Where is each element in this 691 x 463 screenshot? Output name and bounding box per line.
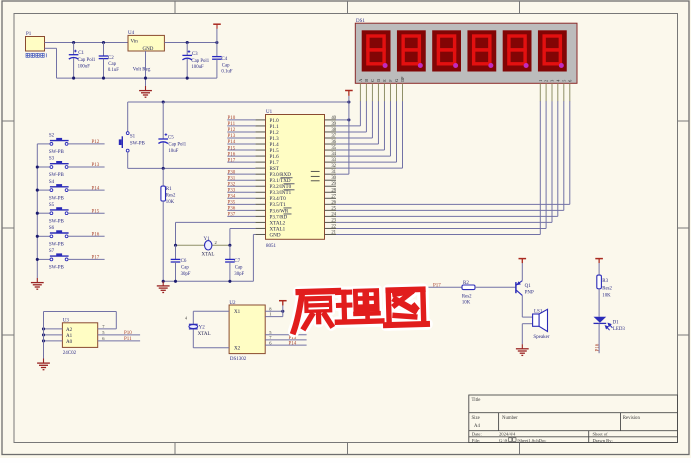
- wire pin25 to display digit: [336, 209, 564, 211]
- svg-text:P14: P14: [92, 186, 100, 191]
- display digit 4: [467, 30, 496, 71]
- svg-text:Cap: Cap: [108, 62, 116, 67]
- U2 wire net P13: [265, 339, 306, 341]
- capacitor C3: [186, 41, 189, 44]
- U1 right pin 27: [325, 197, 337, 199]
- svg-text:SW-PB: SW-PB: [49, 219, 65, 224]
- VCC power bar U2: [279, 300, 287, 302]
- svg-text:S2: S2: [49, 134, 55, 139]
- wire net P31: [227, 179, 255, 181]
- svg-text:30: 30: [331, 176, 336, 181]
- svg-text:2024/4/4: 2024/4/4: [499, 432, 516, 437]
- svg-text:P15: P15: [228, 146, 236, 151]
- svg-text:Cap Pol1: Cap Pol1: [191, 59, 209, 64]
- svg-text:Sheet of: Sheet of: [593, 432, 609, 437]
- wire Q1 collector: [521, 295, 523, 317]
- svg-text:1: 1: [269, 312, 271, 317]
- U1 right pin 30: [325, 179, 337, 181]
- gnd bottom rail: [57, 77, 217, 79]
- svg-text:Cap: Cap: [235, 266, 243, 271]
- svg-text:P31: P31: [228, 176, 236, 181]
- wire pin26 to display digit: [336, 203, 570, 205]
- svg-text:S3: S3: [49, 157, 55, 162]
- wire pin38 to display segment: [336, 131, 366, 133]
- U1 right pin 37: [325, 137, 337, 139]
- svg-text:0.1uF: 0.1uF: [221, 69, 232, 74]
- svg-text:U4: U4: [128, 31, 135, 36]
- svg-text:GND: GND: [270, 232, 281, 238]
- overline INT0: [284, 183, 295, 185]
- svg-text:1: 1: [538, 80, 543, 82]
- svg-text:4: 4: [185, 315, 187, 320]
- wire pin31 EA: [336, 173, 349, 175]
- U2 pin1 wire: [265, 316, 283, 318]
- svg-text:Res2: Res2: [166, 194, 176, 199]
- U1 right pin 24: [325, 215, 337, 217]
- ground under speaker: [521, 344, 523, 349]
- wire pin23 to display digit: [336, 221, 552, 223]
- svg-text:31: 31: [331, 170, 336, 175]
- svg-text:File:: File:: [472, 438, 480, 443]
- svg-text:40: 40: [331, 116, 336, 121]
- wire U1 GND: [253, 233, 255, 235]
- wire pin22 to display digit: [336, 227, 546, 229]
- svg-text:Revision: Revision: [623, 416, 641, 421]
- mystery dashes: [311, 170, 320, 172]
- svg-text:33: 33: [331, 158, 336, 163]
- ground under xtal rail: [162, 281, 164, 286]
- svg-text:Drawn By:: Drawn By:: [593, 438, 613, 443]
- svg-text:27: 27: [331, 194, 336, 199]
- U1 right pin 34: [325, 155, 337, 157]
- wire S2 to net P12: [68, 143, 105, 145]
- VCC power bar top: [216, 29, 218, 43]
- svg-text:Cap: Cap: [222, 63, 230, 68]
- wire S6 to net P16: [68, 235, 105, 237]
- svg-text:DP: DP: [400, 76, 405, 82]
- svg-text:8051: 8051: [266, 244, 277, 249]
- resistor R3: [597, 275, 602, 289]
- svg-text:P35: P35: [228, 201, 236, 206]
- wire U3 A0: [44, 340, 63, 342]
- svg-text:B: B: [364, 79, 369, 82]
- svg-text:LED3: LED3: [613, 327, 626, 332]
- xtal gnd rail: [163, 280, 253, 282]
- svg-text:G: G: [394, 79, 399, 82]
- wire S3 to net P13: [68, 166, 105, 168]
- svg-text:C4: C4: [221, 57, 227, 62]
- U1 right pin 32: [325, 167, 337, 169]
- U1 right pin 38: [325, 131, 337, 133]
- U2 wire net P14: [265, 344, 306, 346]
- wire D1 to net P16: [598, 323, 600, 353]
- wire pin21 to display digit: [336, 233, 540, 235]
- svg-text:S4: S4: [49, 180, 55, 185]
- svg-text:32: 32: [331, 164, 336, 169]
- svg-text:Cap Pol1: Cap Pol1: [168, 143, 186, 148]
- ground under switch rail: [36, 278, 38, 283]
- svg-text:C5: C5: [168, 136, 174, 141]
- U1 right pin 29: [325, 185, 337, 187]
- RST wire: [128, 167, 256, 169]
- svg-text:SW-PB: SW-PB: [49, 150, 65, 155]
- wire R2 to Q1 base: [475, 286, 516, 288]
- svg-text:22: 22: [331, 224, 336, 229]
- wire net P13: [227, 137, 255, 139]
- wire pin32 to display segment: [336, 167, 403, 169]
- svg-text:Y2: Y2: [199, 325, 206, 330]
- svg-text:5: 5: [561, 80, 566, 82]
- svg-text:C: C: [370, 79, 375, 82]
- U2 pin8 VCC wire: [265, 310, 283, 312]
- svg-text:30pF: 30pF: [234, 272, 244, 277]
- wire pin37 to display segment: [336, 137, 372, 139]
- svg-text:34: 34: [331, 152, 336, 157]
- svg-text:P30: P30: [228, 170, 236, 175]
- U2 wire net P12: [265, 334, 306, 336]
- svg-text:Q1: Q1: [525, 284, 532, 289]
- svg-text:SW-PB: SW-PB: [130, 141, 146, 146]
- svg-text:26: 26: [331, 200, 336, 205]
- svg-text:S7: S7: [49, 249, 55, 254]
- U1 right pin 21: [325, 233, 337, 235]
- U1 right pin 31: [325, 173, 337, 175]
- wire net P35: [227, 203, 255, 205]
- switch S5: [37, 212, 50, 214]
- svg-text:U1: U1: [266, 110, 273, 115]
- svg-text:Res2: Res2: [462, 294, 472, 299]
- svg-text:P17: P17: [92, 256, 100, 261]
- svg-text:P16: P16: [92, 233, 100, 238]
- wire net P32: [227, 185, 255, 187]
- wire pin34 to display segment: [336, 155, 390, 157]
- svg-text:P37: P37: [228, 213, 236, 218]
- crystal Y1: [176, 244, 205, 246]
- overline INT1: [284, 189, 295, 191]
- svg-text:XTAL: XTAL: [198, 332, 211, 337]
- svg-text:SW-PB: SW-PB: [49, 196, 65, 201]
- wire net P34: [227, 197, 255, 199]
- title block: [469, 395, 678, 443]
- wire S7 to net P17: [68, 258, 105, 260]
- connector P1: [26, 37, 45, 52]
- svg-text:P16: P16: [228, 152, 236, 157]
- speaker LS1: [522, 316, 532, 318]
- display digit 5: [503, 30, 532, 71]
- svg-text:P36: P36: [228, 207, 236, 212]
- svg-text:Size: Size: [472, 416, 480, 421]
- U3 pin 5 wire net P10: [98, 334, 140, 336]
- wire net P33: [227, 191, 255, 193]
- svg-text:23: 23: [331, 218, 336, 223]
- svg-text:24: 24: [331, 212, 336, 217]
- svg-text:R2: R2: [463, 281, 469, 286]
- svg-text:P34: P34: [228, 194, 236, 199]
- svg-text:R3: R3: [602, 279, 608, 284]
- svg-text:P33: P33: [228, 188, 236, 193]
- U1 right pin 22: [325, 227, 337, 229]
- transistor Q1 PNP: [515, 282, 517, 293]
- svg-text:U2: U2: [229, 301, 236, 306]
- svg-text:Title: Title: [472, 398, 481, 403]
- eeprom U3 24C02: [62, 323, 97, 348]
- wire net P11: [227, 125, 255, 127]
- svg-text:C2: C2: [108, 56, 114, 61]
- svg-text:GND: GND: [143, 47, 154, 52]
- svg-text:C6: C6: [181, 259, 187, 264]
- svg-text:24C02: 24C02: [63, 351, 77, 356]
- svg-text:38: 38: [331, 128, 336, 133]
- overline P3.1/TXD: [281, 177, 293, 179]
- wire net P10: [227, 119, 255, 121]
- svg-text:37: 37: [331, 134, 336, 139]
- svg-text:Res2: Res2: [602, 286, 612, 291]
- svg-text:Cap: Cap: [181, 266, 189, 271]
- svg-text:G:\S: G:\S: [499, 438, 508, 443]
- U1 right pin 33: [325, 161, 337, 163]
- U3 ground rail: [43, 312, 45, 359]
- crystal Y2: [193, 310, 229, 312]
- wire net P30: [227, 173, 255, 175]
- wire P1 pin2 to gnd rail: [45, 47, 57, 49]
- wire net P36: [227, 209, 255, 211]
- svg-text:S6: S6: [49, 226, 55, 231]
- overline RD: [284, 213, 292, 215]
- ground under U4: [145, 86, 147, 91]
- svg-text:D1: D1: [613, 321, 620, 326]
- wire S4 to net P14: [68, 189, 105, 191]
- U1 right pin 25: [325, 209, 337, 211]
- svg-text:Y1: Y1: [204, 237, 211, 242]
- svg-text:4: 4: [555, 80, 560, 82]
- svg-text:28: 28: [331, 188, 336, 193]
- switch S2: [37, 143, 50, 145]
- svg-text:2: 2: [544, 80, 549, 82]
- svg-text:R1: R1: [166, 187, 172, 192]
- overline WR: [284, 207, 292, 209]
- svg-text:P12: P12: [92, 140, 100, 145]
- VCC power bar R3: [595, 258, 603, 260]
- wire R3 to D1: [598, 289, 600, 317]
- switch S7: [37, 258, 50, 260]
- wire P1 to U4: [45, 42, 129, 44]
- U1 right pin 40: [325, 119, 337, 121]
- ground under U3: [43, 359, 45, 364]
- wire pin35 to display segment: [336, 149, 384, 151]
- svg-text:P32: P32: [228, 182, 236, 187]
- svg-text:6: 6: [567, 80, 572, 82]
- svg-text:PNP: PNP: [525, 290, 534, 295]
- svg-text:C1: C1: [78, 51, 84, 56]
- svg-text:A0: A0: [66, 339, 73, 345]
- svg-text:100uF: 100uF: [78, 64, 91, 69]
- svg-text:P1: P1: [26, 32, 32, 37]
- svg-text:P11: P11: [124, 337, 132, 342]
- display digit 2: [397, 30, 426, 71]
- svg-text:P13: P13: [228, 134, 236, 139]
- svg-text:S5: S5: [49, 203, 55, 208]
- capacitor C1: [72, 41, 75, 44]
- svg-text:Number: Number: [502, 416, 518, 421]
- VCC rail wire: [128, 101, 349, 103]
- wire net P17: [227, 161, 255, 163]
- wire U3 WP loop: [44, 311, 117, 313]
- U1 right pin 26: [325, 203, 337, 205]
- svg-text:P10: P10: [228, 116, 236, 121]
- svg-text:0.1uF: 0.1uF: [108, 68, 119, 73]
- capacitor C4: [215, 41, 218, 44]
- svg-text:LS1: LS1: [534, 309, 543, 314]
- wire U4 out: [164, 42, 217, 44]
- wire pin39 to display segment: [336, 125, 360, 127]
- svg-text:25: 25: [331, 206, 336, 211]
- svg-text:3: 3: [550, 80, 555, 82]
- wire net P37: [227, 215, 255, 217]
- wire net P14: [227, 143, 255, 145]
- svg-text:100uF: 100uF: [191, 65, 204, 70]
- display digit 3: [432, 30, 461, 71]
- resistor R1: [162, 168, 164, 186]
- svg-text:SW-PB: SW-PB: [49, 243, 65, 248]
- switch S3: [37, 166, 50, 168]
- svg-text:P16: P16: [595, 343, 600, 351]
- switch S1: [127, 102, 129, 132]
- wire pin40 VCC: [336, 119, 349, 121]
- wire XTAL2: [176, 221, 256, 223]
- svg-text:39: 39: [331, 122, 336, 127]
- svg-text:29: 29: [331, 182, 336, 187]
- resistor R2: [462, 285, 475, 290]
- wire XTAL1: [230, 227, 256, 229]
- U3 pin 6 wire net P11: [98, 340, 140, 342]
- U1 right pin 36: [325, 143, 337, 145]
- svg-text:10K: 10K: [462, 301, 471, 306]
- VCC power bar display: [345, 90, 353, 92]
- VCC vertical to EA: [348, 96, 350, 174]
- svg-text:C7: C7: [234, 259, 240, 264]
- display digit 1: [362, 30, 391, 71]
- capacitor C5: [162, 100, 165, 103]
- svg-text:X1: X1: [234, 309, 241, 315]
- voltage regulator U4: [128, 35, 164, 51]
- svg-text:Date:: Date:: [472, 432, 482, 437]
- svg-text:P14: P14: [228, 140, 236, 145]
- svg-text:SW-PB: SW-PB: [49, 266, 65, 271]
- capacitor C6: [175, 245, 177, 259]
- svg-text:Vin: Vin: [131, 40, 139, 45]
- svg-text:P10: P10: [124, 331, 132, 336]
- U1 right pin 39: [325, 125, 337, 127]
- svg-text:30pF: 30pF: [181, 272, 191, 277]
- capacitor C2: [102, 41, 105, 44]
- display digit 6: [538, 30, 567, 71]
- svg-text:SW-PB: SW-PB: [49, 173, 65, 178]
- wire S5 to net P15: [68, 212, 105, 214]
- svg-text:P14: P14: [289, 341, 297, 346]
- svg-text:P12: P12: [228, 128, 236, 133]
- svg-text:XTAL: XTAL: [202, 253, 215, 258]
- svg-text:P13: P13: [92, 163, 100, 168]
- svg-text:DS1302: DS1302: [230, 357, 247, 362]
- svg-text:A: A: [358, 79, 363, 82]
- wire pin36 to display segment: [336, 143, 378, 145]
- switch S4: [37, 189, 50, 191]
- svg-text:10K: 10K: [166, 200, 175, 205]
- wire pin33 to display segment: [336, 161, 396, 163]
- svg-text:U3: U3: [63, 318, 70, 323]
- wire U3 A1: [44, 334, 63, 336]
- svg-text:C3: C3: [192, 52, 198, 57]
- wire pin24 to display digit: [336, 215, 558, 217]
- svg-text:Volt Reg: Volt Reg: [133, 68, 151, 73]
- capacitor C7: [229, 245, 231, 259]
- svg-text:A4: A4: [474, 424, 480, 429]
- U1 right pin 35: [325, 149, 337, 151]
- svg-text:P17: P17: [228, 158, 236, 163]
- svg-text:X2: X2: [234, 346, 241, 352]
- svg-text:21: 21: [331, 230, 336, 235]
- svg-text:\Sheet1.SchDoc: \Sheet1.SchDoc: [517, 438, 546, 443]
- rtc U2 DS1302: [229, 305, 265, 354]
- U1 right pin 23: [325, 221, 337, 223]
- svg-text:Speaker: Speaker: [533, 335, 549, 340]
- wire R1 to gnd rail: [162, 201, 164, 281]
- VCC power bar Q1: [519, 258, 527, 260]
- svg-text:P15: P15: [92, 209, 100, 214]
- border zone ticks: [174, 1, 176, 14]
- svg-text:36: 36: [331, 140, 336, 145]
- svg-text:S1: S1: [130, 135, 136, 140]
- led D1: [594, 317, 607, 323]
- wire P17 to R2: [428, 286, 462, 288]
- wire U3 A2: [44, 328, 63, 330]
- watermark yuanlitu: [292, 284, 427, 331]
- svg-text:P11: P11: [228, 122, 236, 127]
- wire U4 gnd stem: [145, 51, 147, 86]
- wire net P15: [227, 149, 255, 151]
- mcu U1 8051: [266, 115, 325, 240]
- svg-text:10uF: 10uF: [168, 149, 178, 154]
- U1 right pin 28: [325, 191, 337, 193]
- switch rail: [36, 144, 38, 278]
- svg-text:D: D: [376, 79, 381, 82]
- switch S6: [37, 235, 50, 237]
- svg-text:35: 35: [331, 146, 336, 151]
- svg-text:Cap Pol1: Cap Pol1: [78, 58, 96, 63]
- svg-text:10K: 10K: [602, 294, 611, 299]
- wire net P16: [227, 155, 255, 157]
- svg-text:2: 2: [215, 240, 217, 245]
- wire net P12: [227, 131, 255, 133]
- label dianyuanjiekou (CJK): [26, 53, 46, 57]
